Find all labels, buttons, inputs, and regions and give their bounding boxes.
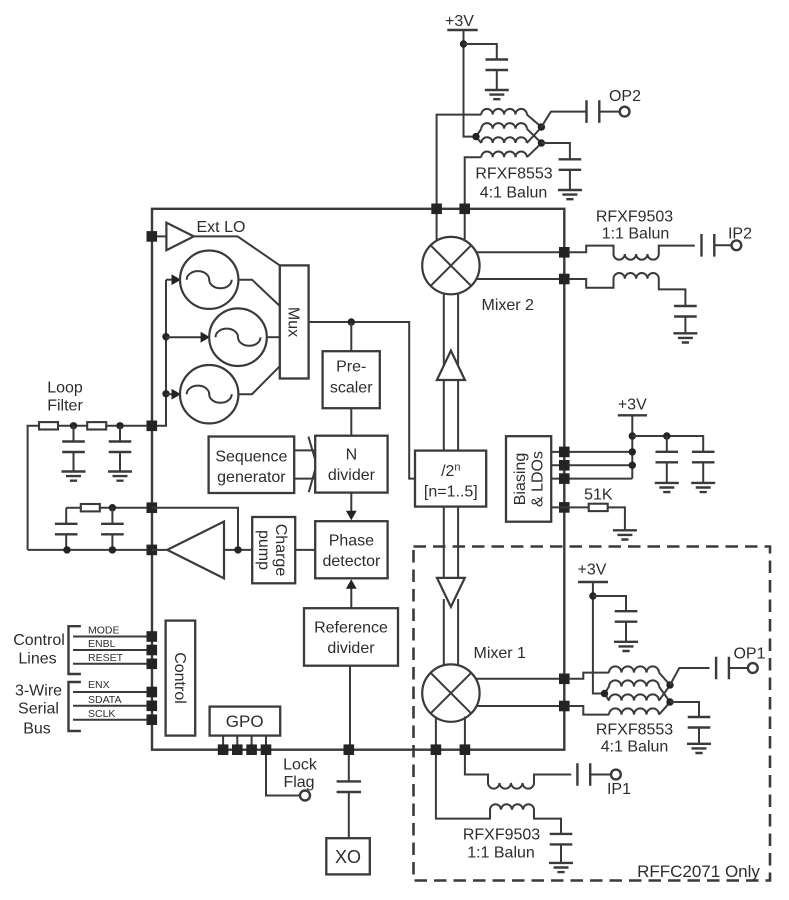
svg-text:Filter: Filter: [47, 398, 83, 415]
oscillator O2 circle: [209, 308, 267, 366]
GPO stub 2: [236, 736, 238, 745]
wire tap to prescaler: [350, 322, 352, 351]
capacitor OP2 coupling: [587, 100, 600, 123]
transformer T1 winding 1 coil: [481, 109, 527, 115]
junction dot center tap T2: [601, 690, 608, 697]
node square right edge M2 lower: [559, 274, 570, 285]
dot +3V low: [589, 592, 596, 599]
sequence generator box: [209, 437, 295, 494]
chip outline box: [152, 209, 564, 750]
mixer M1 X: [431, 673, 472, 714]
loop filter row1 wire: [28, 426, 152, 550]
svg-text:pump: pump: [255, 530, 272, 570]
capacitor bias B: [692, 452, 715, 463]
node square SDATA: [147, 701, 158, 712]
svg-text:RFXF9503: RFXF9503: [463, 827, 540, 844]
wire node D to shunt cap: [670, 702, 699, 717]
svg-text:Charge: Charge: [272, 524, 289, 577]
wire Ext LO to Mux: [194, 236, 280, 265]
op-amp loop amplifier triangle: [167, 522, 224, 579]
wire mixer1 output lower: [476, 705, 564, 707]
T2 winding2 lead: [605, 687, 610, 694]
wire capB ground: [702, 462, 704, 482]
arrowhead osc3: [172, 389, 182, 400]
node square bias1: [559, 447, 570, 458]
node square loop filter row2: [147, 502, 158, 513]
svg-text:GPO: GPO: [226, 712, 264, 731]
wire charge pump to phase detector: [295, 549, 315, 551]
svg-text:Sequence: Sequence: [215, 448, 287, 465]
charge pump box: [252, 517, 295, 583]
capacitor OP1 coupling: [716, 657, 729, 680]
+3V supply top bar: [447, 29, 477, 31]
svg-text:Reference: Reference: [314, 620, 388, 637]
wire reference divider to phase detector arrow: [350, 589, 352, 609]
control box: [166, 621, 196, 736]
node square right edge M2 upper: [559, 247, 570, 258]
svg-text:OP1: OP1: [733, 646, 765, 663]
capacitor LF C2: [109, 442, 132, 453]
svg-text:1:1 Balun: 1:1 Balun: [602, 226, 670, 243]
svg-text:IP1: IP1: [607, 781, 631, 798]
wire +3V mid down: [631, 415, 633, 478]
wire node to buffer: [157, 235, 166, 237]
wire prescaler to N divider: [350, 408, 352, 436]
svg-text:& LDOs: & LDOs: [530, 451, 547, 507]
svg-text:Lock: Lock: [283, 757, 318, 774]
svg-text:1:1 Balun: 1:1 Balun: [467, 845, 535, 862]
svg-text:Pre-: Pre-: [336, 358, 366, 375]
+3V low bar: [578, 581, 608, 583]
svg-text:detector: detector: [322, 553, 380, 570]
node square right edge M1 lower: [559, 701, 570, 712]
wire ENBL: [73, 649, 152, 651]
biasing box: [506, 436, 551, 522]
wire +3V low to cap: [593, 596, 626, 611]
svg-text:Control: Control: [13, 632, 65, 649]
svg-text:SCLK: SCLK: [88, 708, 115, 720]
node square RESET: [147, 659, 158, 670]
transformer T2 RFXF8553 winding1 lead: [570, 673, 609, 679]
node square GPO3: [246, 744, 257, 755]
svg-text:RFXF8553: RFXF8553: [596, 722, 673, 739]
svg-text:XO: XO: [335, 847, 361, 867]
wire LF cap4: [111, 508, 113, 524]
transformer T1 winding 2 to node B: [527, 129, 542, 143]
wire +3V low down center tap: [593, 582, 605, 694]
svg-text:divider: divider: [328, 467, 376, 484]
node square chip top 1: [431, 204, 442, 215]
svg-text:RFFC2071 Only: RFFC2071 Only: [637, 862, 760, 881]
ground: [655, 483, 679, 492]
terminal lock flag: [300, 791, 310, 801]
node square 51K: [559, 502, 570, 513]
capacitor bias A: [656, 452, 679, 463]
wire N divider to phase detector arrow: [350, 493, 352, 512]
wire LF cap3: [65, 508, 67, 524]
node square bottom refdiv: [344, 744, 355, 755]
wire osc2 to Mux: [267, 336, 280, 338]
svg-text:3-Wire: 3-Wire: [15, 683, 62, 700]
node A dot: [538, 123, 545, 130]
capacitor LF C3: [55, 524, 78, 535]
wire +3V down to balun center tap: [464, 30, 477, 137]
arrowhead up: [346, 579, 357, 589]
XO box: [326, 838, 370, 874]
capacitor IP2 shunt: [674, 306, 697, 317]
svg-text:Ext LO: Ext LO: [197, 219, 246, 236]
oscillator O2 sine: [216, 329, 261, 346]
wire to ground: [119, 452, 121, 471]
pre-scaler box: [323, 351, 380, 408]
T2 winding3 lead: [605, 694, 610, 701]
wire osc1 to Mux: [238, 280, 279, 306]
reference divider box: [304, 608, 398, 666]
wire cap to OP1 terminal: [729, 667, 748, 669]
dot +3V mid: [629, 432, 636, 439]
Mux box: [280, 265, 309, 378]
arrowhead osc1: [172, 274, 182, 285]
junction dot LF2: [116, 422, 123, 429]
bus wires seqgen to N divider: [294, 450, 316, 478]
/2n divider box: [415, 451, 486, 507]
wire mixer2 output lower: [476, 278, 564, 280]
capacitor on node B: [559, 159, 582, 170]
wire cap to ground: [684, 317, 686, 333]
wire node C to OP1 cap: [670, 668, 710, 685]
oscillator O1 circle: [180, 251, 238, 309]
oscillator O3 circle: [180, 365, 238, 423]
arrowhead down: [346, 511, 357, 521]
capacitor LF C1: [62, 442, 85, 453]
wire cap to ground: [569, 170, 571, 190]
mixer 2 LO double line upper: [444, 292, 458, 451]
oscillator O3 sine: [187, 386, 232, 403]
N divider box: [315, 436, 387, 493]
terminal IP2: [732, 240, 742, 250]
bracket control lines: [69, 626, 81, 674]
svg-text:Mux: Mux: [285, 307, 302, 337]
node square bias3: [559, 473, 570, 484]
GPO stub 1: [222, 736, 224, 745]
node D dot: [666, 698, 673, 705]
ground: [485, 90, 509, 99]
wire cap to ground: [496, 70, 498, 90]
wire feedback node to charge pump input: [152, 508, 238, 550]
GPO stub 4: [265, 736, 267, 745]
transformer T1 winding 2 coil: [481, 123, 527, 129]
resistor LF R2: [87, 422, 106, 429]
svg-text:+3V: +3V: [445, 13, 474, 30]
wire +3V mid to caps: [632, 436, 703, 451]
ground: [108, 472, 132, 481]
node square Ext LO: [147, 231, 158, 242]
svg-text:MODE: MODE: [88, 625, 120, 637]
wire mixer1 lower left leg: [435, 717, 437, 745]
wire amp output: [224, 549, 252, 551]
svg-text:Mixer 1: Mixer 1: [474, 645, 527, 662]
node square ENX: [147, 687, 158, 698]
node square loop filter row3: [147, 545, 158, 556]
phase detector box: [315, 521, 387, 578]
ground: [549, 863, 573, 872]
T2 winding2 to node D: [659, 687, 670, 702]
wire MODE: [73, 636, 152, 638]
svg-text:divider: divider: [327, 640, 375, 657]
junction dot LF3: [109, 504, 116, 511]
wire capA ground: [666, 462, 668, 482]
wire bias row2: [551, 464, 632, 466]
wire mixer1 lower right leg: [464, 717, 466, 745]
resistor LF R1: [39, 422, 58, 429]
mixer M1 circle: [422, 664, 479, 721]
wire square to mixer2 input 2: [464, 214, 466, 242]
wire amp input: [152, 549, 167, 551]
wire osc3 to Mux: [238, 366, 279, 394]
transformer T1 winding 3 lead: [476, 137, 481, 143]
wire LF cap1: [73, 426, 75, 441]
node dot +3V: [460, 40, 467, 47]
svg-text:SDATA: SDATA: [88, 694, 121, 706]
transformer T1 winding 1 to node A: [527, 115, 542, 127]
svg-text:OP2: OP2: [609, 88, 641, 105]
IP1 balun upper winding lead and coil: [465, 755, 571, 789]
junction dot LF5: [109, 546, 116, 553]
wire node A to OP2 cap: [541, 112, 586, 127]
/2n box connects: [444, 507, 458, 578]
svg-text:RFXF9503: RFXF9503: [596, 209, 673, 226]
ground: [673, 333, 697, 342]
svg-text:Flag: Flag: [283, 774, 314, 791]
dot bias row2: [629, 462, 636, 469]
osc feed dot 3: [162, 390, 169, 397]
wire node to XO cap: [348, 755, 350, 782]
T2 winding1 coil: [609, 666, 659, 672]
wire 51K right to ground: [608, 507, 625, 529]
svg-text:Serial: Serial: [18, 701, 59, 718]
GPO box: [210, 707, 281, 736]
capacitor decoupling top: [486, 60, 509, 71]
node square bias2: [559, 460, 570, 471]
svg-text:Bus: Bus: [23, 721, 51, 738]
node square loop filter row1: [147, 421, 158, 432]
wire RESET: [73, 663, 152, 665]
wire ENX: [73, 691, 152, 693]
oscillator O1 sine: [187, 271, 232, 288]
wire bias row1: [551, 451, 632, 453]
node square GPO4: [261, 744, 272, 755]
IP1 balun lower winding lead and coil: [436, 755, 561, 834]
capacitor low: [615, 611, 638, 622]
IP2 balun lower winding lead and coil: [570, 273, 686, 305]
ground: [687, 744, 711, 753]
svg-text:Mixer 2: Mixer 2: [482, 297, 535, 314]
capacitor IP2 coupling: [702, 234, 715, 257]
wire cap ground: [698, 728, 700, 744]
RFFC2071 Only dashed box: [414, 547, 771, 882]
terminal IP1: [611, 770, 621, 780]
node B dot: [538, 139, 545, 146]
wire mixer1 output upper: [476, 678, 565, 680]
svg-text:Phase: Phase: [329, 532, 374, 549]
node square GPO2: [232, 744, 243, 755]
node square MODE: [147, 631, 158, 642]
svg-text:Control: Control: [171, 652, 188, 704]
wire cap ground: [625, 622, 627, 642]
junction dot LF1: [70, 422, 77, 429]
T2 winding3 coil: [609, 694, 659, 700]
ground: [558, 190, 582, 199]
capacitor LF C4: [101, 524, 124, 535]
transformer T1 winding 4 lead: [465, 157, 482, 209]
capacitor node D: [688, 717, 711, 728]
svg-text:N: N: [346, 447, 358, 464]
svg-text:ENX: ENX: [88, 679, 110, 691]
T2 winding3 to node C: [659, 685, 670, 700]
transformer T1 winding 2 lead: [476, 129, 481, 137]
svg-text:Biasing: Biasing: [512, 453, 529, 505]
loop filter row2 top wire: [66, 507, 152, 509]
node square ENBL: [147, 645, 158, 656]
wire SDATA: [73, 705, 152, 707]
transformer T1 winding 4 to node B: [527, 143, 542, 157]
wire bias row3: [551, 478, 632, 480]
wire lock flag: [266, 755, 300, 796]
wire cap ground: [560, 844, 562, 862]
LO down arrow: [437, 578, 465, 607]
ground: [691, 483, 715, 492]
arrowhead osc2: [201, 332, 211, 343]
resistor 51K: [589, 504, 608, 511]
svg-text:ENBL: ENBL: [88, 638, 116, 650]
node square right edge M1 upper: [559, 674, 570, 685]
T2 winding4 lead: [570, 706, 609, 715]
T2 winding4 to node D: [659, 702, 670, 714]
node square GPO1: [218, 744, 229, 755]
capacitor IP1 shunt: [550, 834, 573, 845]
svg-text:+3V: +3V: [618, 397, 647, 414]
ground: [62, 472, 86, 481]
wire arrow into osc3: [166, 393, 172, 395]
oscillator feed wire: [152, 280, 166, 426]
wire square to mixer2 input 1: [436, 214, 438, 242]
node square chip top 2: [459, 204, 470, 215]
wire cap to IP1 terminal: [590, 774, 611, 776]
mixer M2 circle: [422, 237, 479, 294]
mixer M2 X: [431, 245, 472, 286]
svg-text:IP2: IP2: [728, 226, 752, 243]
+3V mid bar: [618, 414, 647, 416]
wire Mux output to /2n: [309, 322, 415, 479]
wire 51K left: [551, 506, 589, 508]
node square M1 leg1: [431, 744, 442, 755]
transformer T1 winding 3 coil: [481, 137, 527, 143]
ground: [613, 530, 637, 539]
wire cap3 down: [65, 534, 67, 550]
svg-text:RESET: RESET: [88, 652, 124, 664]
wire to decoupling cap: [464, 44, 497, 59]
wire cap to XO: [348, 792, 350, 838]
svg-text:[n=1..5]: [n=1..5]: [424, 483, 478, 500]
wire SCLK: [73, 719, 152, 721]
bracket serial bus: [69, 682, 81, 731]
junction dot amp output: [234, 546, 241, 553]
T2 winding2 coil: [609, 680, 659, 686]
IP2 balun upper winding lead and coil: [570, 246, 695, 260]
dot cap branch: [663, 432, 670, 439]
svg-text:Loop: Loop: [47, 380, 83, 397]
transformer T1 RFXF8553 winding 1 lead: [437, 115, 482, 209]
wire cap4 down: [111, 534, 113, 550]
ground: [614, 642, 638, 651]
svg-text:4:1 Balun: 4:1 Balun: [601, 739, 669, 756]
svg-text:51K: 51K: [584, 487, 613, 504]
wire arrow into osc1: [166, 279, 172, 281]
T2 winding4 coil: [609, 708, 659, 714]
buffer amp Ext LO triangle: [166, 223, 193, 251]
capacitor IP1 coupling: [577, 763, 590, 786]
wire LF cap2: [119, 426, 121, 441]
junction dot LF4: [63, 546, 70, 553]
wire capA down: [666, 436, 668, 451]
transformer T1 winding 4 coil: [481, 152, 527, 158]
osc feed dot 2: [162, 333, 169, 340]
node square SCLK: [147, 714, 158, 725]
wire cap to OP2 terminal: [599, 111, 619, 113]
svg-text:Lines: Lines: [18, 651, 56, 668]
resistor LF R3: [81, 504, 100, 511]
dot bias row1: [629, 448, 636, 455]
T2 winding1 to node C: [659, 673, 670, 685]
wire cap to IP2 terminal: [714, 244, 731, 246]
wire arrow into osc2: [166, 336, 201, 338]
LO up arrow: [437, 351, 465, 380]
wire reference divider down to chip edge: [349, 666, 351, 745]
capacitor XO series: [337, 781, 361, 792]
GPO stub 3: [251, 736, 253, 745]
svg-text:generator: generator: [217, 469, 286, 486]
wire LO to mixer1: [444, 599, 458, 665]
bus chevron: [308, 437, 316, 493]
transformer T1 winding 3 to node A: [527, 127, 542, 143]
wire mixer2 output upper: [476, 251, 564, 253]
node square M1 leg2: [460, 744, 471, 755]
svg-text:scaler: scaler: [330, 379, 373, 396]
node C dot: [666, 681, 673, 688]
loop filter bottom wire: [28, 549, 152, 551]
terminal OP1: [748, 663, 758, 673]
svg-text:+3V: +3V: [578, 562, 607, 579]
wire to ground: [73, 452, 75, 471]
svg-text:4:1 Balun: 4:1 Balun: [480, 185, 548, 202]
svg-text:RFXF8553: RFXF8553: [475, 166, 552, 183]
junction dot center tap T1: [472, 133, 479, 140]
junction dot prescaler tap: [348, 318, 355, 325]
wire node B to shunt cap: [541, 143, 570, 159]
terminal OP2: [620, 107, 630, 117]
